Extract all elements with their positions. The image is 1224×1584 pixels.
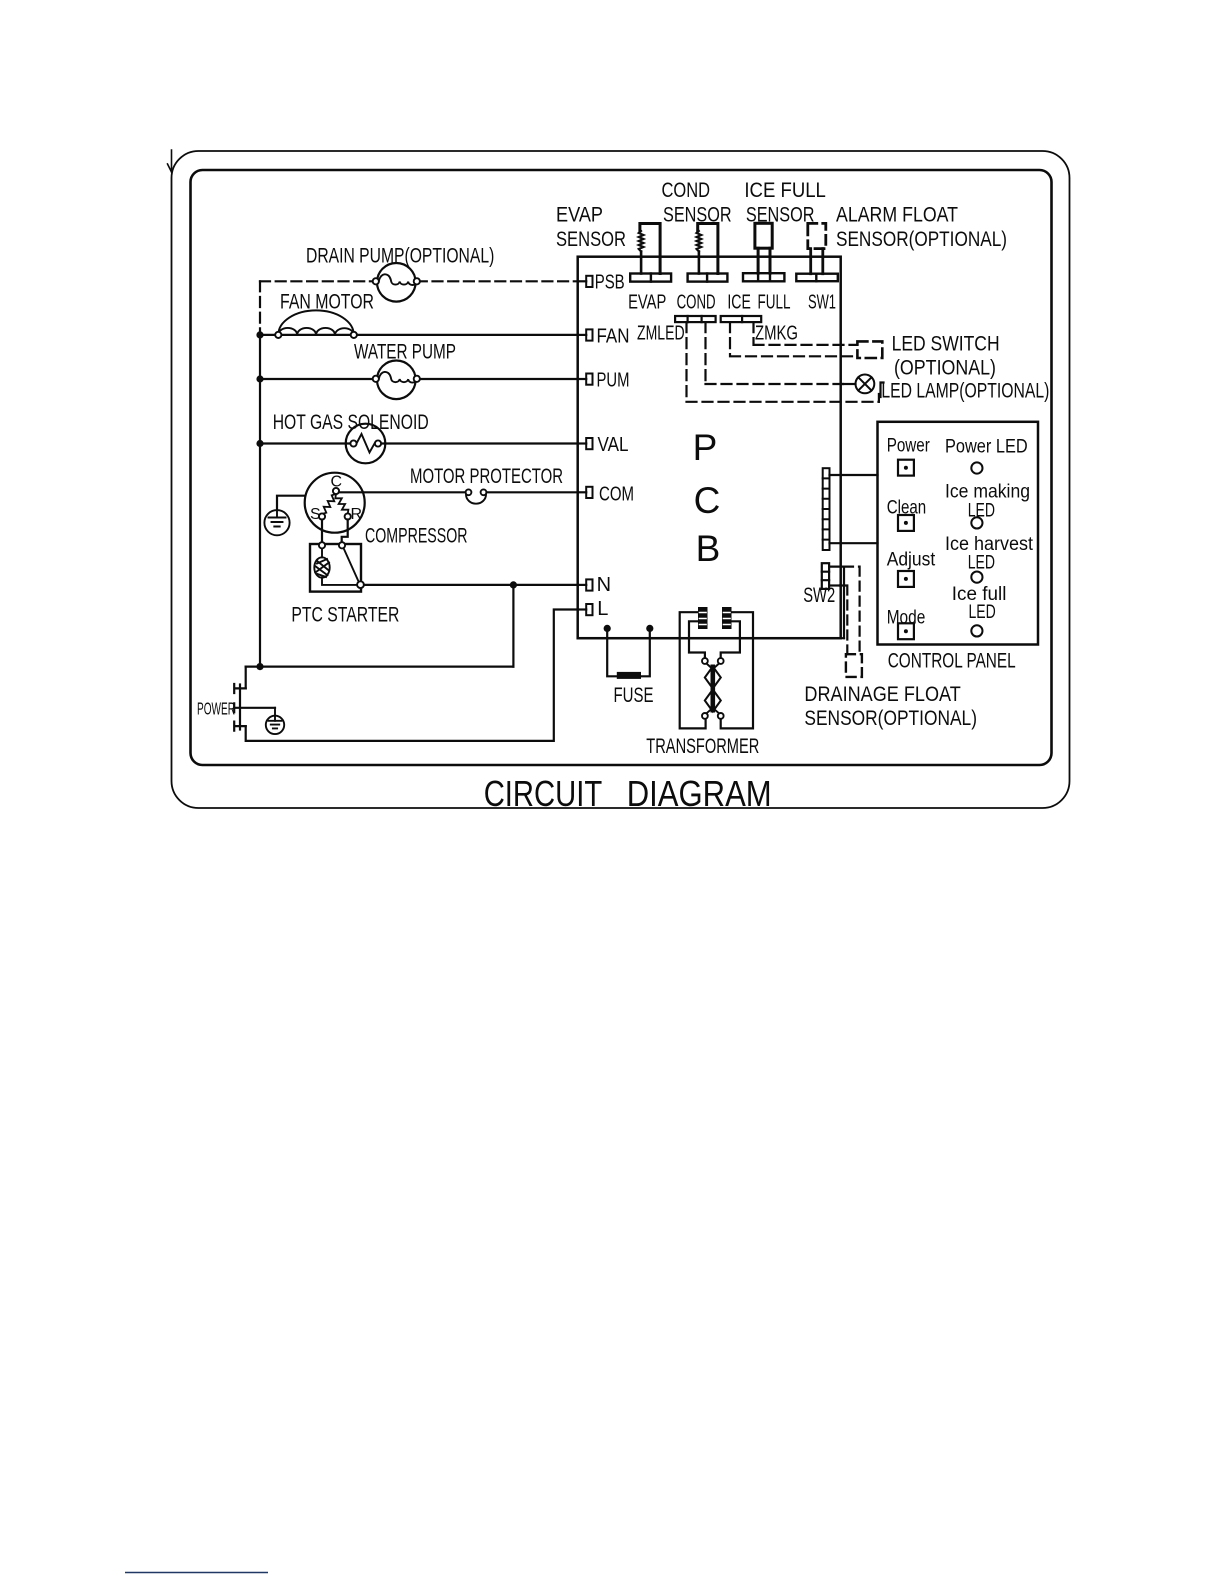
svg-text:ZMLED: ZMLED [637, 322, 685, 344]
transformer pin right [722, 607, 732, 629]
wire plug top prong riser [245, 667, 247, 689]
wire dashed drainage right [844, 567, 860, 655]
label ICE FULL SENSOR [744, 179, 826, 226]
svg-text:PTC STARTER: PTC STARTER [291, 604, 399, 627]
LED making [971, 517, 982, 528]
label LED SWITCH [892, 333, 1000, 356]
label FULL [758, 292, 791, 314]
svg-text:SENSOR: SENSOR [556, 228, 626, 251]
wire dashed drainage left [840, 586, 847, 655]
node N junction [510, 581, 517, 588]
wire compressor S to PTC [321, 520, 323, 543]
LED power [971, 462, 982, 473]
label EVAP SENSOR [556, 204, 626, 251]
connector ZMLED (bar) [675, 316, 716, 322]
label ZMLED [637, 322, 685, 344]
wire bus valve to bottom [259, 444, 261, 667]
LED harvest [971, 572, 982, 583]
svg-text:POWER: POWER [197, 699, 235, 719]
svg-text:ALARM FLOAT: ALARM FLOAT [836, 204, 958, 227]
port FAN [578, 329, 593, 340]
wire dashed ZMLED to lamp [706, 322, 844, 384]
inner border frame [191, 170, 1052, 765]
button Clean [898, 515, 914, 531]
svg-text:COND: COND [677, 292, 716, 314]
wire bus pump to valve [259, 379, 261, 444]
hot gas solenoid L1 [346, 424, 386, 464]
transformer T1 inner loop [689, 621, 740, 658]
svg-text:ICE: ICE [727, 292, 751, 314]
button Mode [898, 623, 914, 639]
port PUM [578, 374, 593, 385]
wire CN to control panel bottom [830, 542, 878, 544]
svg-text:P: P [693, 427, 718, 468]
title CIRCUIT DIAGRAM [484, 773, 772, 814]
fuse F2 [607, 628, 650, 679]
label LED (making) [968, 501, 995, 522]
label PTC STARTER [291, 604, 399, 627]
compressor M1 [305, 473, 365, 533]
drain pump M3 [373, 263, 420, 302]
corner tick mark [168, 150, 172, 172]
node bus bottom [256, 663, 263, 670]
water pump M4 [373, 361, 420, 400]
sensor probe COND [697, 224, 718, 274]
svg-text:N: N [597, 574, 611, 596]
svg-text:DIAGRAM: DIAGRAM [627, 773, 772, 814]
wire compressor R to PTC [342, 520, 348, 543]
connector ZMKG (bar) [721, 316, 762, 322]
svg-text:PUM: PUM [597, 369, 630, 391]
svg-text:SENSOR: SENSOR [663, 204, 732, 227]
label Ice making [945, 481, 1030, 502]
label WATER PUMP [354, 340, 456, 363]
wire fan line [260, 334, 578, 336]
PTC starter box [310, 544, 361, 592]
port L [578, 604, 593, 615]
PTC switch lever [344, 548, 360, 583]
port PSB [578, 276, 593, 287]
label COM [599, 483, 634, 505]
label ICE [727, 292, 751, 314]
wire N drop [512, 585, 514, 667]
control panel box [878, 422, 1039, 645]
ground (plug) [266, 708, 284, 734]
wire bus fan to pump [259, 335, 261, 379]
svg-text:SENSOR(OPTIONAL): SENSOR(OPTIONAL) [804, 707, 977, 730]
connector SW2 [822, 563, 844, 589]
label Ice harvest [945, 534, 1034, 555]
label PSB [595, 271, 625, 293]
label SW1 [808, 292, 836, 314]
svg-text:Power LED: Power LED [945, 437, 1028, 458]
label Ice full [952, 584, 1007, 605]
svg-text:EVAP: EVAP [628, 292, 666, 314]
svg-text:C: C [331, 474, 343, 491]
svg-text:FUSE: FUSE [614, 684, 654, 707]
label EVAP [628, 292, 666, 314]
svg-text:Ice making: Ice making [945, 481, 1030, 502]
label Adjust [887, 550, 936, 571]
svg-text:MOTOR PROTECTOR: MOTOR PROTECTOR [410, 465, 563, 488]
ground (compressor) [264, 510, 289, 535]
svg-text:SW2: SW2 [803, 584, 835, 607]
label L [597, 598, 608, 620]
svg-text:LED: LED [969, 602, 996, 623]
button Adjust [898, 571, 914, 587]
connector ICE FULL (bar) [743, 273, 784, 281]
connector SW1 (bar) [796, 274, 838, 282]
label R [351, 506, 363, 523]
connector CN (PCB right, hatched) [823, 468, 830, 550]
sensor probe EVAP [639, 224, 660, 274]
svg-text:HOT GAS SOLENOID: HOT GAS SOLENOID [273, 411, 429, 434]
svg-text:SW1: SW1 [808, 292, 836, 314]
fan motor M2 (winding) [275, 310, 357, 338]
wire dashed ZMKG to LED switch top [754, 322, 858, 345]
label COND [677, 292, 716, 314]
PTC terminals [319, 542, 364, 588]
label MOTOR PROTECTOR [410, 465, 563, 488]
label SW2 [803, 584, 835, 607]
wire dashed ZMKG to LED switch bottom [730, 322, 857, 356]
svg-text:Clean: Clean [887, 498, 927, 519]
svg-text:C: C [694, 480, 721, 521]
port VAL [578, 438, 593, 449]
svg-text:LED: LED [968, 552, 995, 573]
wire N line [364, 584, 578, 586]
label HOT GAS SOLENOID [273, 411, 429, 434]
wire dashed ZMLED to lamp bottom [687, 322, 879, 402]
label ALARM FLOAT SENSOR(OPTIONAL) [836, 204, 1007, 251]
svg-text:Mode: Mode [887, 607, 926, 628]
svg-text:PSB: PSB [595, 271, 625, 293]
svg-text:CONTROL PANEL: CONTROL PANEL [888, 649, 1016, 672]
svg-text:Power: Power [887, 435, 931, 456]
svg-text:FAN MOTOR: FAN MOTOR [280, 291, 374, 314]
wire water pump line [260, 378, 578, 380]
button Power [898, 460, 914, 476]
svg-text:SENSOR: SENSOR [746, 204, 815, 227]
wire SW2 riser [843, 567, 845, 639]
label N [597, 574, 611, 596]
node fuse right [646, 625, 653, 632]
label FAN [597, 326, 630, 348]
node valve bus [256, 440, 263, 447]
label COMPRESSOR [365, 524, 468, 547]
LED full [971, 625, 982, 636]
svg-text:COM: COM [599, 483, 634, 505]
svg-text:TRANSFORMER: TRANSFORMER [646, 735, 759, 758]
wire compressor C to COM [339, 491, 578, 493]
svg-text:SENSOR(OPTIONAL): SENSOR(OPTIONAL) [836, 228, 1007, 251]
wire bottom horizontal to plug [246, 665, 514, 667]
label Power [887, 435, 931, 456]
PCB box U1 [578, 257, 841, 639]
PCB letter B [696, 528, 721, 569]
port COM [578, 487, 593, 498]
svg-text:COMPRESSOR: COMPRESSOR [365, 524, 468, 547]
port N [578, 579, 593, 590]
label CONTROL PANEL [888, 649, 1016, 672]
LED lamp (circle with X) [856, 375, 875, 394]
wire dashed bus top [259, 281, 261, 335]
label C [331, 474, 343, 491]
svg-text:EVAP: EVAP [556, 204, 603, 227]
transformer winding [702, 658, 724, 719]
label Power LED [945, 437, 1028, 458]
svg-text:ZMKG: ZMKG [755, 322, 798, 344]
label LED (harvest) [968, 552, 995, 573]
svg-text:FULL: FULL [758, 292, 791, 314]
wire dashed drain line [260, 280, 376, 282]
svg-text:Adjust: Adjust [887, 550, 936, 571]
wire main bottom (PCB bottom to SW2 riser) [578, 637, 844, 639]
page footer line [125, 1572, 268, 1574]
node fan bus [256, 331, 263, 338]
label FAN MOTOR [280, 291, 374, 314]
svg-text:WATER PUMP: WATER PUMP [354, 340, 456, 363]
connector EVAP (bar) [630, 274, 671, 282]
label POWER [197, 699, 235, 719]
power plug [234, 684, 275, 731]
LED switch (dashed box) [857, 341, 882, 358]
label Mode [887, 607, 926, 628]
svg-text:(OPTIONAL): (OPTIONAL) [894, 357, 996, 380]
label Clean [887, 498, 927, 519]
svg-text:COND: COND [662, 179, 711, 202]
wire CN to control panel top [830, 474, 878, 476]
svg-text:DRAINAGE FLOAT: DRAINAGE FLOAT [804, 683, 961, 706]
label VAL [598, 434, 629, 456]
PCB letter P [693, 427, 718, 468]
label COND SENSOR [662, 179, 732, 226]
wire hot gas line [260, 442, 578, 444]
label ZMKG [755, 322, 798, 344]
svg-text:DRAIN PUMP(OPTIONAL): DRAIN PUMP(OPTIONAL) [306, 245, 494, 268]
svg-text:S: S [310, 506, 321, 523]
label LED LAMP(OPTIONAL) [881, 379, 1049, 402]
PCB letter C [694, 480, 721, 521]
label LED (full) [969, 602, 996, 623]
svg-text:ICE FULL: ICE FULL [744, 179, 826, 202]
connector COND (bar) [688, 274, 728, 282]
label FUSE [614, 684, 654, 707]
sensor probe ICE FULL [755, 223, 772, 273]
svg-text:R: R [351, 506, 363, 523]
svg-text:VAL: VAL [598, 434, 629, 456]
transformer pin left [698, 607, 708, 629]
drainage float sensor (dashed box) [846, 654, 862, 677]
sensor probe ALARM FLOAT (dashed) [808, 223, 826, 273]
label PUM [597, 369, 630, 391]
node fuse left [604, 625, 611, 632]
svg-text:L: L [597, 598, 608, 620]
PTC element [314, 548, 357, 585]
lamp bracket [881, 383, 884, 398]
label DRAIN PUMP(OPTIONAL) [306, 245, 494, 268]
svg-text:LED LAMP(OPTIONAL): LED LAMP(OPTIONAL) [881, 379, 1049, 402]
wire plug L prong to fuse line [246, 610, 578, 741]
node pump bus [256, 375, 263, 382]
svg-text:CIRCUIT: CIRCUIT [484, 773, 603, 814]
svg-text:FAN: FAN [597, 326, 630, 348]
svg-text:LED SWITCH: LED SWITCH [892, 333, 1000, 356]
motor protector F1 [466, 489, 487, 503]
svg-text:B: B [696, 528, 721, 569]
label TRANSFORMER [646, 735, 759, 758]
transformer T1 outer loop [680, 612, 753, 728]
label DRAINAGE FLOAT SENSOR(OPTIONAL) [804, 683, 977, 730]
label S [310, 506, 321, 523]
outer border frame [172, 151, 1070, 808]
label (OPTIONAL) [894, 357, 996, 380]
wire compressor ground arm [277, 496, 305, 510]
